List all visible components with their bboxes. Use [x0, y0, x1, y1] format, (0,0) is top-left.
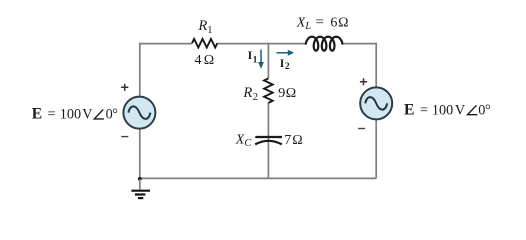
- svg-text:C: C: [244, 138, 252, 149]
- left plus sign: [121, 84, 128, 91]
- svg-text:R: R: [197, 18, 207, 34]
- svg-text:6: 6: [330, 15, 337, 30]
- wire top-left segment: [140, 43, 192, 45]
- wire bottom: [140, 177, 376, 179]
- svg-text:1: 1: [253, 56, 258, 66]
- ground bar 1: [131, 190, 150, 192]
- svg-text:L: L: [304, 21, 311, 32]
- ground junction dot: [138, 177, 142, 181]
- svg-text:E=100V0°: E=100V0°: [32, 106, 118, 123]
- current I2 arrow: [277, 50, 295, 56]
- ground bar 3: [138, 197, 143, 199]
- svg-text:1: 1: [207, 25, 212, 36]
- capacitor XC top plate: [255, 136, 282, 138]
- wire top-middle segment: [217, 43, 305, 45]
- left angle symbol: [94, 110, 104, 119]
- svg-text:2: 2: [253, 92, 258, 103]
- capacitor XC bottom plate: [255, 141, 282, 145]
- svg-text:4Ω: 4Ω: [195, 53, 215, 68]
- AC source left sine: [128, 106, 150, 118]
- svg-text:2: 2: [285, 62, 290, 72]
- svg-text:R: R: [242, 85, 252, 101]
- svg-text:X: X: [296, 15, 306, 30]
- inductor XL coil: [306, 37, 343, 51]
- wire right vertical: [375, 43, 377, 179]
- left minus sign: [121, 136, 128, 138]
- AC source right circle: [360, 87, 392, 119]
- svg-text:X: X: [235, 132, 245, 147]
- wire middle branch lower: [267, 103, 269, 179]
- AC source left circle: [123, 97, 155, 129]
- svg-text:Ω: Ω: [338, 15, 348, 30]
- right plus sign: [360, 78, 367, 85]
- svg-text:=: =: [316, 14, 324, 30]
- resistor R2: [264, 78, 273, 102]
- resistor R1: [192, 39, 217, 48]
- svg-text:E=100V0°: E=100V0°: [404, 101, 491, 118]
- wire middle branch upper: [267, 44, 269, 79]
- ground stem: [139, 179, 141, 190]
- current I1 arrow: [258, 50, 264, 69]
- right angle symbol: [468, 105, 478, 114]
- svg-text:9Ω: 9Ω: [278, 86, 296, 101]
- right minus sign: [358, 128, 365, 130]
- svg-text:7Ω: 7Ω: [284, 133, 303, 148]
- wire top-right segment: [342, 43, 376, 45]
- ground bar 2: [135, 193, 146, 195]
- AC source right sine: [365, 97, 387, 109]
- wire left vertical: [139, 43, 141, 179]
